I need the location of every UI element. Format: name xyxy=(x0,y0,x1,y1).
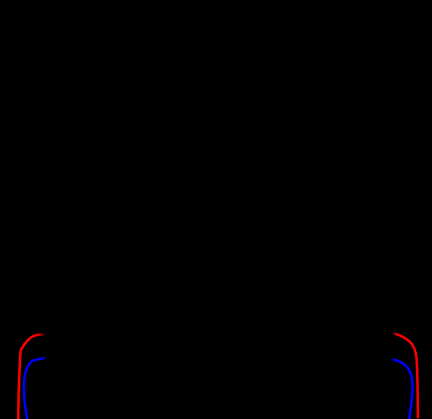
left blue curve xyxy=(24,358,46,419)
left red curve xyxy=(18,334,45,419)
right blue curve xyxy=(391,359,413,419)
right red curve xyxy=(392,333,418,418)
